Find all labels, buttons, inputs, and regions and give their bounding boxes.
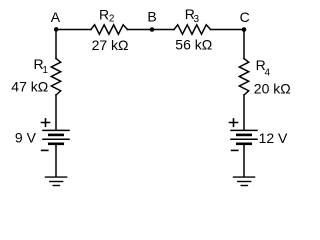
value 56 kOhm <box>175 37 212 53</box>
svg-text:12 V: 12 V <box>259 130 288 146</box>
wire R4 to battery V2 <box>243 95 245 130</box>
svg-text:1: 1 <box>42 65 48 76</box>
value 20 kOhm <box>254 80 291 96</box>
wire battery V2 to ground <box>243 145 245 176</box>
plus sign V1 <box>42 119 50 126</box>
value 27 kOhm <box>92 37 129 53</box>
wire R2 to B <box>127 29 152 31</box>
svg-text:3: 3 <box>194 14 200 25</box>
svg-text:B: B <box>147 9 156 25</box>
value 47 kOhm <box>11 79 48 95</box>
wire A to R2 <box>56 29 91 31</box>
svg-text:47 kΩ: 47 kΩ <box>11 79 48 95</box>
svg-text:4: 4 <box>265 68 271 79</box>
svg-text:C: C <box>240 9 250 25</box>
label C <box>240 9 250 25</box>
label R4 <box>256 57 271 78</box>
resistor R4 <box>239 59 248 96</box>
wire B to R3 <box>152 29 174 31</box>
node B <box>150 27 155 32</box>
resistor R1 <box>51 59 60 96</box>
minus sign V2 <box>232 149 238 151</box>
svg-text:2: 2 <box>109 14 115 25</box>
resistor R3 <box>174 25 211 34</box>
label A <box>51 9 61 25</box>
label R1 <box>34 56 49 76</box>
wire A to R1 <box>55 30 57 59</box>
svg-text:56 kΩ: 56 kΩ <box>175 37 212 53</box>
value 9 V <box>15 130 37 146</box>
svg-text:9 V: 9 V <box>15 130 37 146</box>
battery V2 <box>231 130 257 143</box>
label R3 <box>185 6 200 25</box>
node C <box>242 27 247 32</box>
value 12 V <box>259 130 288 146</box>
ground left <box>46 177 67 185</box>
label B <box>147 9 156 25</box>
svg-text:20 kΩ: 20 kΩ <box>254 80 291 96</box>
wire battery V1 to ground <box>55 145 57 176</box>
svg-text:27 kΩ: 27 kΩ <box>92 37 129 53</box>
wire R1 to battery V1 <box>55 95 57 130</box>
svg-text:R: R <box>99 6 109 22</box>
resistor R2 <box>91 25 128 34</box>
wire R3 to C <box>211 29 245 31</box>
plus sign V2 <box>230 119 238 126</box>
minus sign V1 <box>42 149 48 151</box>
battery V1 <box>43 130 69 143</box>
wire C to R4 <box>243 30 245 59</box>
ground right <box>234 177 255 185</box>
svg-text:A: A <box>51 9 61 25</box>
node A <box>54 27 59 32</box>
label R2 <box>99 6 115 24</box>
